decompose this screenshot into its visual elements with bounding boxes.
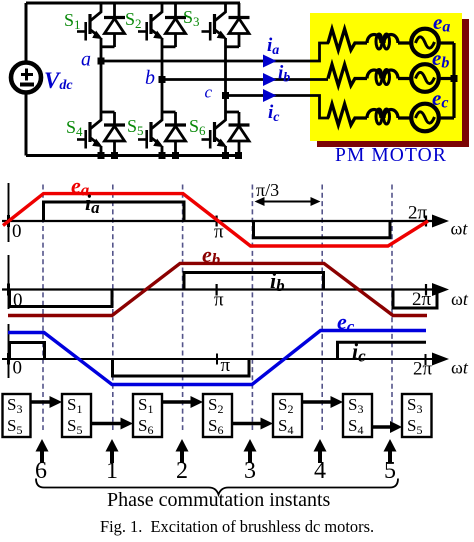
svg-text:4: 4 [314,458,326,484]
svg-text:π: π [221,355,231,376]
svg-text:0: 0 [13,358,23,379]
svg-text:3: 3 [244,458,256,484]
svg-text:ia: ia [267,35,279,58]
svg-text:0: 0 [13,290,23,311]
svg-text:Fig. 1. Excitation of brushle: Fig. 1. Excitation of brushless dc motor… [100,517,374,536]
svg-text:π/3: π/3 [256,180,279,200]
svg-text:ωt: ωt [451,289,469,309]
svg-text:eb: eb [202,242,220,269]
svg-text:ib: ib [278,63,290,86]
svg-text:2: 2 [176,458,188,484]
svg-text:2π: 2π [412,289,432,310]
svg-text:S6: S6 [189,116,206,138]
svg-text:π: π [214,290,224,311]
svg-text:5: 5 [384,458,396,484]
svg-text:π: π [214,222,224,243]
svg-text:ec: ec [337,309,355,336]
svg-text:S2: S2 [125,9,142,31]
svg-text:Vdc: Vdc [44,68,73,93]
svg-text:c: c [205,83,213,102]
svg-text:ωt: ωt [451,358,469,378]
svg-text:2π: 2π [413,359,433,380]
svg-text:S5: S5 [127,116,144,138]
svg-text:S1: S1 [64,10,81,32]
svg-text:ωt: ωt [451,219,469,239]
svg-text:S3: S3 [183,7,200,29]
svg-text:0: 0 [12,221,22,242]
svg-text:b: b [145,67,155,89]
svg-text:a: a [81,49,91,71]
svg-text:S4: S4 [66,117,83,139]
svg-text:PM MOTOR: PM MOTOR [335,145,447,166]
svg-text:2π: 2π [408,203,428,224]
svg-text:1: 1 [106,458,118,484]
svg-text:Phase commutation instants: Phase commutation instants [107,489,331,511]
svg-text:ic: ic [268,102,280,125]
